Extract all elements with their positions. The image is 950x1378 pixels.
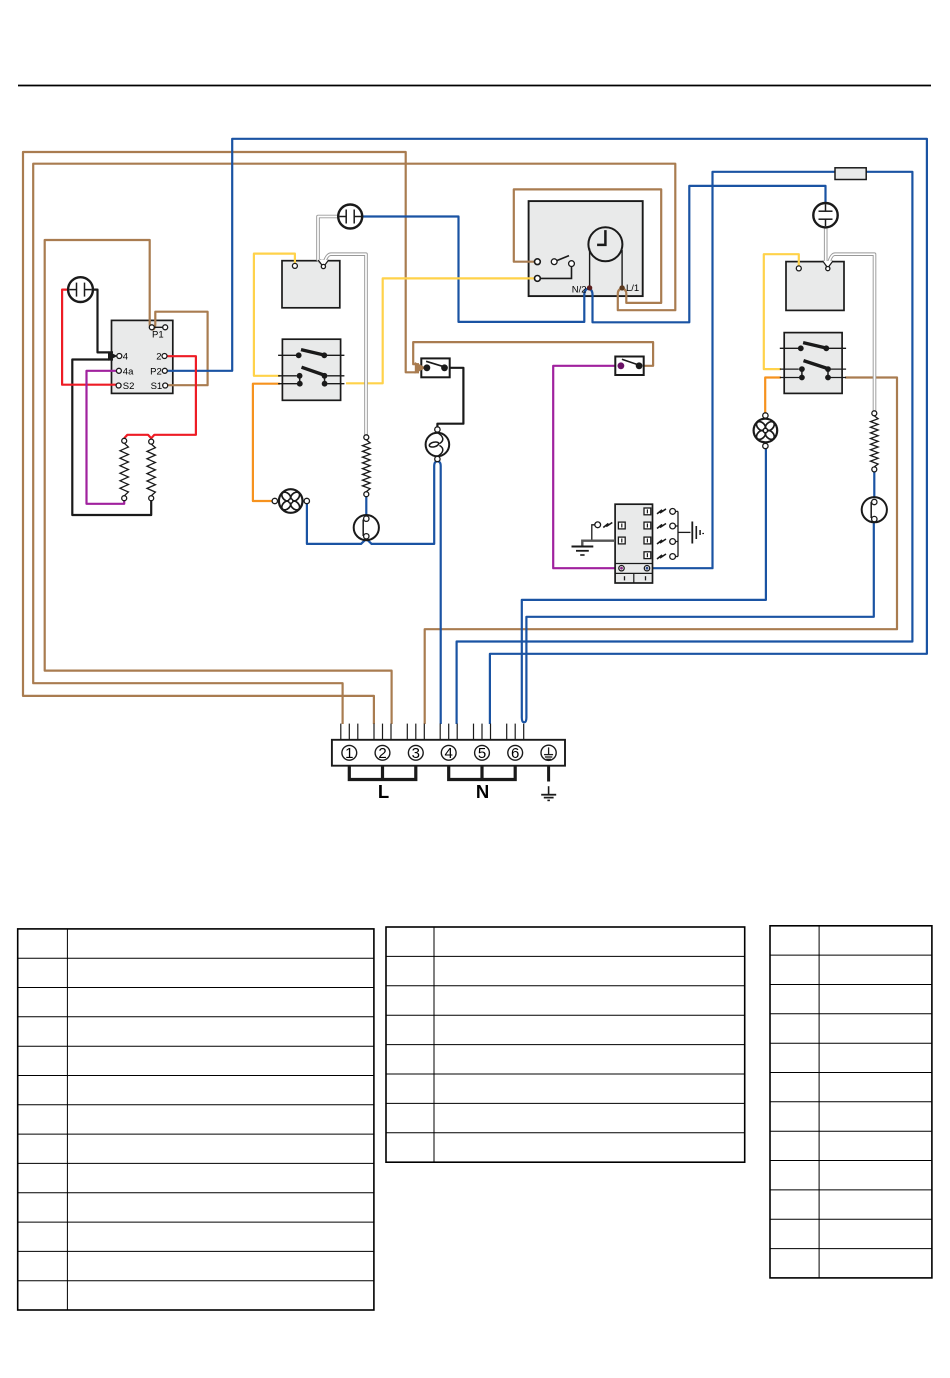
- timer pin L/1: [619, 285, 624, 290]
- arrow into regulator pin 4: [108, 351, 118, 361]
- ignition module pins: [619, 566, 624, 571]
- svg-text:P1: P1: [152, 330, 164, 341]
- spark electrode left: [603, 523, 612, 528]
- wire grey lamp H2 to S3a: [318, 217, 339, 265]
- wire orange S3b bottom row to fan M1: [253, 384, 280, 501]
- terminal earth: [541, 745, 556, 760]
- ground symbol left of module: [572, 546, 594, 548]
- wire grey S4a to resistor R4: [828, 254, 875, 412]
- wire black thermostat to oven lamp E4: [437, 368, 463, 428]
- regulator pin S1: [163, 383, 168, 388]
- wire black regulator pin 4 to heater R2: [72, 360, 151, 516]
- oven lamp E3: [354, 515, 379, 540]
- regulator pin 2: [162, 354, 167, 359]
- ignition module sockets: [644, 508, 651, 515]
- thermostat microswitch S2: [615, 357, 643, 376]
- oven lamp E5: [862, 497, 887, 522]
- timer terminal brown: [535, 259, 541, 265]
- wire brown timer switch feed loop: [514, 189, 661, 303]
- wire blue fan M2 to terminal 6 to lamp E5: [522, 449, 874, 723]
- regulator pins P1: [152, 326, 165, 328]
- terminal block: [332, 740, 565, 766]
- wire brown grill switch to thermostat switch: [413, 342, 653, 366]
- S3b contact dots and links: [299, 376, 301, 384]
- timer terminal yellow: [535, 276, 541, 282]
- indicator lamp H4: [813, 203, 837, 227]
- svg-text:1: 1: [345, 745, 353, 762]
- S4b row terminals: [780, 347, 798, 349]
- wire grey lamp H4 to S4a: [826, 228, 828, 268]
- selector switch bank S3b: [282, 339, 340, 400]
- S4b contact blade top: [803, 343, 826, 348]
- wire blue lamp H2 to timer N/2 and lamp H4: [362, 186, 826, 322]
- svg-text:P2: P2: [150, 367, 162, 378]
- legend table middle: [386, 927, 745, 1162]
- wire blue fan M1 to lamps E3 E4: [307, 461, 438, 544]
- terminal 4: [441, 745, 456, 760]
- svg-text:5: 5: [478, 745, 486, 762]
- earth lead and symbol: [547, 766, 550, 782]
- S3b row terminals: [278, 354, 296, 356]
- timer pin N/2: [587, 285, 592, 290]
- svg-text:6: 6: [511, 745, 519, 762]
- spark electrodes right: [657, 509, 666, 514]
- svg-text:S1: S1: [151, 381, 163, 392]
- regulator pin S2: [116, 383, 121, 388]
- heater element R3: [363, 440, 371, 492]
- selector switch bank S4b: [784, 333, 842, 394]
- wire brown regulator P1-S1 loop: [45, 240, 392, 724]
- svg-text:L: L: [378, 781, 389, 802]
- indicator lamp H2: [338, 205, 362, 229]
- wire yellow S4a pin to S4b middle row: [764, 254, 799, 369]
- wire purple thermostat switch to ignition module: [553, 366, 619, 568]
- terminal 2: [375, 745, 390, 760]
- wire yellow S3a pin to S3b middle row: [254, 254, 295, 376]
- grill microswitch S1: [421, 358, 449, 377]
- bus bar L: [349, 766, 416, 780]
- S4b contact dots and links: [801, 369, 803, 377]
- S4a notch and pins: [823, 261, 833, 268]
- svg-text:2: 2: [378, 745, 386, 762]
- horizontal rule: [18, 85, 931, 87]
- svg-text:N/2: N/2: [572, 285, 587, 296]
- energy regulator box ER1: [112, 320, 173, 393]
- terminal 1: [342, 745, 357, 760]
- timer motor leads: [589, 249, 591, 287]
- selector contact block S4a: [786, 262, 844, 311]
- wire red regulator pin 2 to heaters: [124, 356, 196, 438]
- oven lamp E4: [426, 433, 450, 457]
- ground lead left of module: [582, 541, 615, 546]
- wire blue resistor R4 to lamp E5: [873, 472, 875, 501]
- legend table right: [770, 926, 932, 1278]
- wire orange S4b bottom row to fan M2: [765, 378, 781, 413]
- wire blue resistor R3 to lamp E3: [365, 497, 367, 518]
- legend table left: [18, 929, 374, 1310]
- wire red lamp H1 to regulator S2: [62, 290, 116, 385]
- heater element R4: [871, 416, 879, 467]
- fan motor M1: [279, 489, 303, 513]
- svg-text:2: 2: [156, 352, 161, 363]
- timer clock hands: [597, 230, 605, 245]
- timer switch contacts: [557, 256, 570, 261]
- chassis ground right of module: [678, 531, 691, 533]
- wire grey S3a to resistor R3: [324, 254, 366, 436]
- arrow into grill switch: [415, 362, 426, 374]
- S3a notch and pins: [318, 260, 328, 267]
- wire blue P2 to terminal 5: [167, 139, 927, 724]
- svg-text:4a: 4a: [123, 367, 134, 378]
- wire brown outer loop to grill switch: [23, 152, 419, 724]
- S3b contact blade top: [301, 350, 324, 355]
- wire yellow timer contact to switch bank S3b: [346, 278, 539, 383]
- heater element R1: [120, 443, 128, 496]
- wire black lamp H1 to regulator pin 4: [93, 290, 114, 353]
- S3b contact blade bottom: [302, 367, 326, 375]
- bus bar N: [449, 766, 516, 780]
- S4b contact blade bottom: [804, 361, 829, 369]
- terminal entry ticks: [340, 724, 342, 740]
- wire blue lamp E4 to terminal 4: [437, 461, 440, 724]
- terminal 6: [508, 745, 523, 760]
- timer T1 box: [529, 201, 643, 296]
- svg-text:N: N: [476, 781, 489, 802]
- wire brown L1 loop via timer L/1: [33, 164, 675, 724]
- svg-text:L/1: L/1: [626, 283, 639, 294]
- svg-text:S2: S2: [123, 381, 135, 392]
- regulator pin 4a: [116, 368, 121, 373]
- terminal 5: [475, 745, 490, 760]
- svg-text:3: 3: [412, 745, 420, 762]
- fan motor M2: [754, 419, 778, 443]
- ignition module box: [615, 504, 652, 583]
- wire brown right bank to terminal 3: [425, 378, 897, 725]
- regulator pin P2: [162, 368, 167, 373]
- heater element R2: [147, 444, 155, 496]
- regulator pin 4: [117, 354, 122, 359]
- selector contact block S3a: [282, 261, 340, 308]
- timer clock face: [588, 227, 622, 261]
- wire purple regulator 4a to heater R1: [87, 371, 125, 504]
- indicator lamp H1: [68, 277, 93, 302]
- terminal 3: [408, 745, 423, 760]
- wire blue ignition module to terminal 4 via fuse: [457, 172, 913, 724]
- svg-text:4: 4: [445, 745, 453, 762]
- fuse F1: [835, 168, 866, 180]
- svg-text:4: 4: [123, 352, 128, 363]
